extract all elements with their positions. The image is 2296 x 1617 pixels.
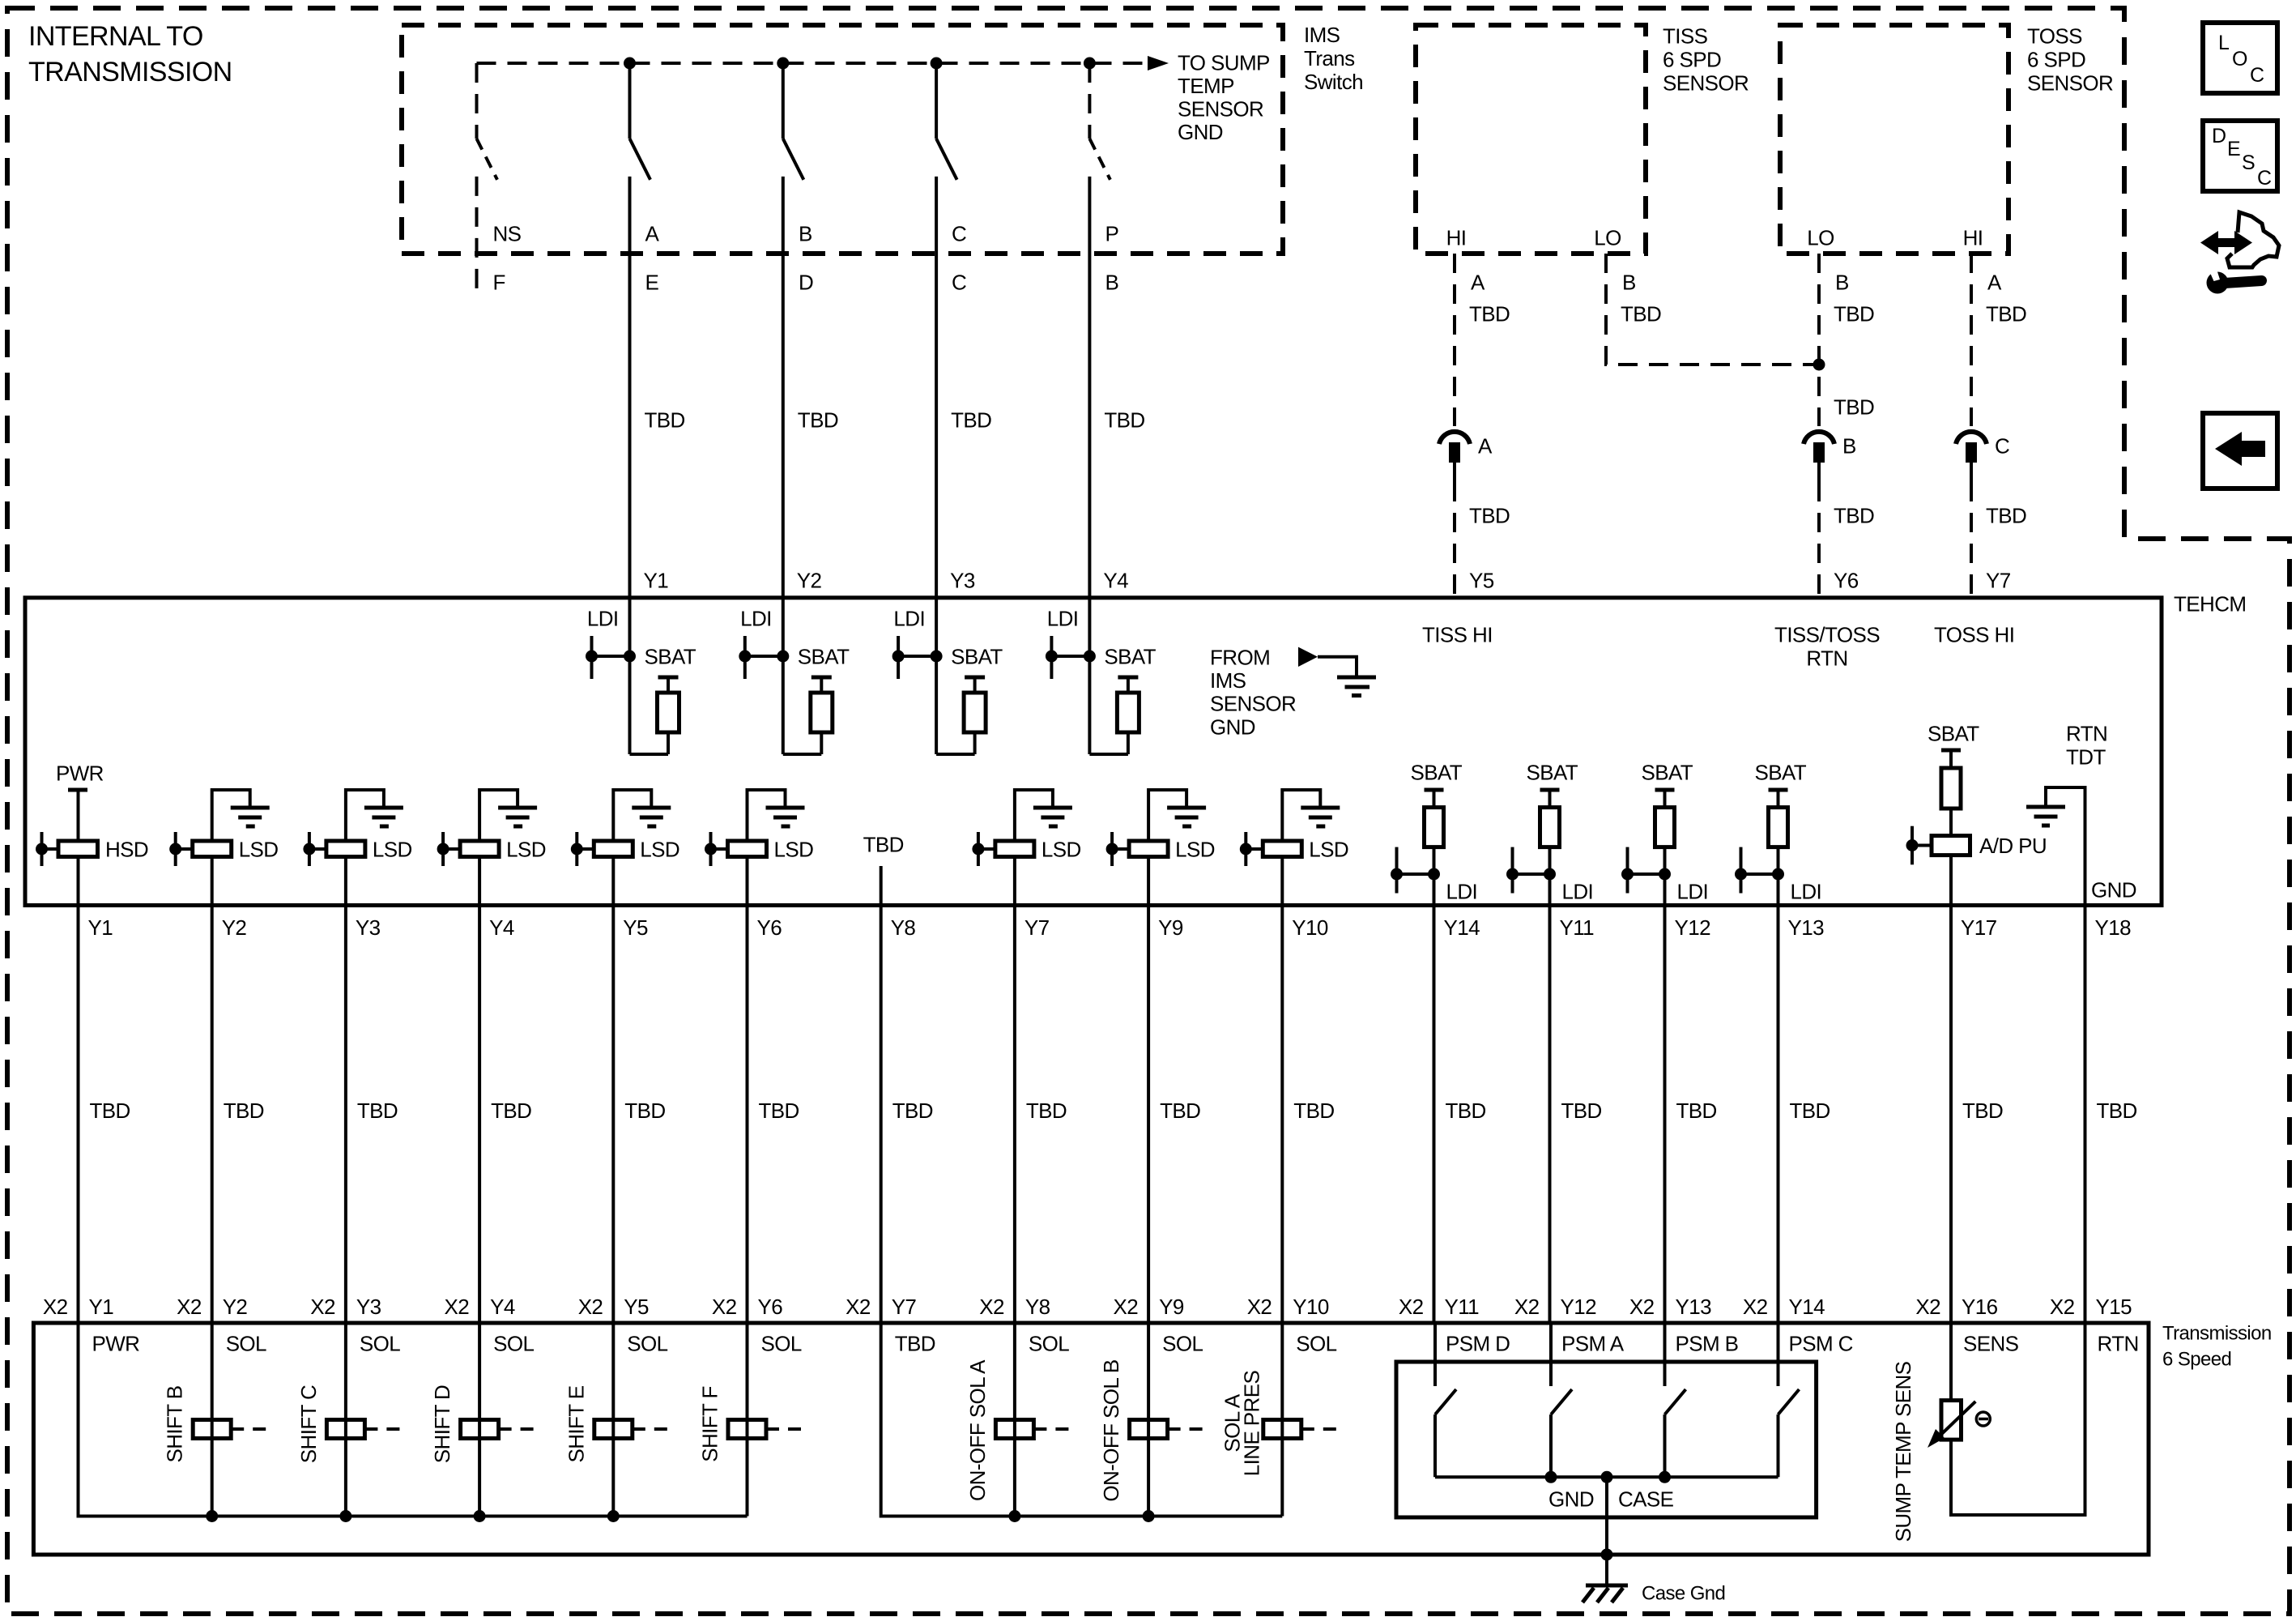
dashed hydraulic stub [231,1427,267,1431]
wire input Y12 [1663,874,1667,906]
icon: DESC box [2203,121,2277,191]
svg-text:Y12: Y12 [1675,915,1711,940]
svg-text:Y5: Y5 [1469,568,1494,592]
dashed hydraulic stub [766,1427,803,1431]
wire: TISS HI to TEHCM Y5 (upper) [1453,254,1456,426]
svg-text:GND: GND [1210,715,1255,739]
svg-text:TDT: TDT [2066,745,2106,769]
svg-text:C: C [2257,167,2272,190]
wire to ground [748,790,786,841]
resistor: SBAT pull-up Y4 [1118,676,1138,680]
svg-text:Y6: Y6 [1834,568,1859,592]
svg-text:TBD: TBD [2097,1099,2137,1123]
svg-text:TBD: TBD [759,1099,799,1123]
junction [1772,868,1784,881]
theta symbol [1976,1412,1990,1426]
svg-text:Y6: Y6 [757,915,782,940]
svg-text:SOL: SOL [360,1331,400,1355]
svg-text:LSD: LSD [373,837,412,861]
wire: IMS switch to TEHCM Y2 [782,177,785,656]
svg-text:PWR: PWR [56,761,104,785]
svg-text:TBD: TBD [1621,301,1661,326]
junction input [303,843,315,855]
ground (LSD Y7) [1033,806,1072,810]
svg-text:X2: X2 [1514,1295,1540,1319]
ground (RTN TDT) [2026,805,2065,809]
input stub [1910,826,1914,865]
svg-text:LDI: LDI [740,606,772,630]
svg-text:TISS HI: TISS HI [1422,622,1493,646]
svg-text:SOL: SOL [761,1331,802,1355]
svg-text:TBD: TBD [895,1331,935,1355]
svg-text:6 Speed: 6 Speed [2162,1349,2231,1371]
switch P (IMS) [1088,63,1091,139]
junction solenoid common [1008,1510,1020,1522]
wire to ground [613,790,651,841]
wire Y16 lower to RTN [1951,1323,2085,1515]
wire harness Y17 [1949,906,1953,1324]
junction solenoid common [1143,1510,1155,1522]
svg-text:HSD: HSD [105,837,148,861]
input stub [977,832,980,866]
svg-text:Y9: Y9 [1158,915,1183,940]
svg-text:SBAT: SBAT [1411,760,1463,784]
svg-text:PSM C: PSM C [1789,1331,1853,1355]
svg-text:TISS: TISS [1663,23,1708,48]
switch blade C [936,139,957,180]
junction input [36,843,48,855]
dashed hydraulic stub [1301,1427,1338,1431]
wire LSD output Y4 [478,857,481,906]
svg-text:Y3: Y3 [950,568,975,592]
svg-text:TBD: TBD [645,407,685,432]
svg-text:SBAT: SBAT [1642,760,1693,784]
wire harness Y7 [1013,906,1016,1324]
ground (IMS sensor gnd) [1337,676,1376,680]
svg-text:Y7: Y7 [1024,915,1050,940]
wire LSD output Y7 [1013,857,1016,906]
wire: TISS LO to TISS/TOSS RTN [1606,254,1819,365]
svg-text:A: A [1471,270,1485,294]
svg-text:RTN: RTN [2098,1331,2139,1355]
driver A/D PU (Y17) [1932,836,1970,855]
svg-text:SBAT: SBAT [645,644,696,668]
junction input [571,843,583,855]
wire Y6 solenoid [746,1323,749,1517]
svg-text:Switch: Switch [1304,70,1363,94]
svg-text:Y8: Y8 [1025,1295,1050,1319]
svg-text:X2: X2 [578,1295,603,1319]
supply bar SBAT [1540,788,1560,792]
junction PSM bus [1659,1471,1671,1483]
svg-text:X2: X2 [1629,1295,1655,1319]
ground (LSD Y5) [632,806,671,810]
svg-text:TBD: TBD [1469,503,1510,527]
svg-text:Y5: Y5 [623,915,648,940]
svg-text:SUMP TEMP SENS: SUMP TEMP SENS [1891,1361,1915,1542]
TEHCM module box [25,598,2162,906]
svg-text:S: S [2242,151,2255,174]
svg-text:TBD: TBD [491,1099,531,1123]
junction on IMS bus at switch P [1084,58,1096,70]
wire harness Y13 [1777,906,1780,1324]
svg-text:INTERNAL TO: INTERNAL TO [28,21,203,52]
svg-text:GND: GND [2091,877,2136,902]
svg-text:X2: X2 [177,1295,202,1319]
resistor: SBAT pull-up Y3 [965,676,985,680]
svg-text:LDI: LDI [1677,879,1709,903]
junction SBAT [624,651,636,663]
svg-text:PSM B: PSM B [1676,1331,1739,1355]
arrow to sump temp sensor gnd [1148,56,1169,70]
wire to ground [1282,790,1320,841]
wire harness Y3 [344,906,347,1324]
svg-text:SBAT: SBAT [1104,644,1156,668]
wire: IMS pin stub F (dashed) [475,177,479,290]
svg-text:TBD: TBD [1986,301,2026,326]
node SBAT Y4 [1088,656,1091,754]
LDI stub [743,636,747,679]
junction input [1906,839,1919,851]
svg-text:B: B [799,221,812,245]
wire harness Y8 [880,906,883,1324]
ground (LSD Y3) [364,806,403,810]
svg-text:Y2: Y2 [223,1295,248,1319]
switch blade PSM D [1435,1389,1456,1414]
junction LDI [1391,868,1403,881]
wire LSD output Y5 [611,857,615,906]
svg-text:Y1: Y1 [89,1295,114,1319]
svg-text:IMS: IMS [1210,668,1246,693]
svg-text:B: B [1105,270,1119,294]
svg-text:SOL: SOL [493,1331,534,1355]
supply bar SBAT [1655,788,1675,792]
svg-text:TOSS HI: TOSS HI [1934,622,2014,646]
wire LSD output Y3 [344,857,347,906]
wire harness Y10 [1280,906,1284,1324]
ground (LSD Y10) [1301,806,1340,810]
svg-text:X2: X2 [1399,1295,1424,1319]
svg-text:TBD: TBD [1676,1099,1717,1123]
svg-text:SHIFT F: SHIFT F [698,1386,722,1462]
svg-text:Y13: Y13 [1676,1295,1712,1319]
dashed hydraulic stub [1168,1427,1204,1431]
svg-text:TBD: TBD [1446,1099,1486,1123]
svg-text:SOL: SOL [627,1331,667,1355]
svg-text:SBAT: SBAT [1755,760,1807,784]
wire Y9 solenoid [1147,1323,1150,1517]
svg-text:X2: X2 [444,1295,469,1319]
wire: IMS switch to TEHCM Y4 [1088,177,1091,656]
TOSS 6 SPD SENSOR box [1780,25,2008,254]
wire Y3 solenoid [344,1323,347,1517]
wire to ground [479,790,518,841]
dashed hydraulic stub [633,1427,669,1431]
svg-text:TBD: TBD [1160,1099,1200,1123]
svg-text:ON-OFF SOL A: ON-OFF SOL A [965,1359,990,1501]
svg-text:TBD: TBD [951,407,991,432]
junction SBAT [777,651,789,663]
svg-text:SENSOR: SENSOR [1178,97,1263,122]
svg-text:PWR: PWR [92,1331,140,1355]
junction LDI [586,651,598,663]
svg-text:Y1: Y1 [88,915,113,940]
wire PSM A upper [1549,1323,1553,1386]
junction at transmission case [1601,1549,1613,1561]
wire harness Y6 [746,906,749,1324]
wire: TOSS HI to TEHCM Y7 (lower) [1970,482,1973,598]
node SBAT Y3 [935,656,938,754]
wire LSD output Y10 [1280,857,1284,906]
resistor: SBAT pull-up Y1 [658,676,679,680]
input stub [709,832,713,866]
svg-text:A: A [1987,270,2002,294]
svg-text:SENS: SENS [1963,1331,2019,1355]
input stub [1110,832,1114,866]
node SBAT Y1 [628,656,632,754]
svg-text:P: P [1105,221,1119,245]
wire Y10 solenoid [1280,1323,1284,1517]
switch NS (IMS) [475,63,479,139]
svg-text:Y7: Y7 [1986,568,2011,592]
svg-text:LSD: LSD [1042,837,1081,861]
svg-text:C: C [1995,433,2009,458]
svg-text:LSD: LSD [1309,837,1348,861]
junction SBAT [1084,651,1096,663]
svg-text:Y5: Y5 [624,1295,649,1319]
Transmission 6 Speed box [33,1323,2149,1555]
input stub [575,832,578,866]
svg-text:X2: X2 [979,1295,1004,1319]
svg-text:SENSOR: SENSOR [1663,70,1749,95]
svg-text:SOL: SOL [226,1331,266,1355]
svg-text:SBAT: SBAT [951,644,1003,668]
svg-text:TISS/TOSS: TISS/TOSS [1774,622,1880,646]
svg-text:B: B [1842,433,1856,458]
svg-text:SHIFT E: SHIFT E [564,1385,588,1462]
svg-text:Y6: Y6 [758,1295,783,1319]
wire Y16 upper [1949,1323,1953,1401]
wire harness Y4 [478,906,481,1324]
svg-text:LDI: LDI [893,606,925,630]
thermistor arrow [1935,1402,1975,1440]
svg-text:GND: GND [1178,120,1223,144]
chassis ground: Case Gnd [1586,1584,1628,1588]
svg-text:TO SUMP: TO SUMP [1178,50,1270,75]
svg-text:E: E [645,270,659,294]
node SBAT Y2 [782,656,785,754]
junction on IMS bus at switch A [624,58,636,70]
svg-text:Y8: Y8 [891,915,916,940]
svg-text:TBD: TBD [1834,301,1874,326]
wire PSM A lower [1549,1414,1553,1477]
wire PWR feed (Y1) [79,1323,748,1517]
svg-text:TBD: TBD [1561,1099,1602,1123]
svg-text:A: A [645,221,660,245]
junction on IMS bus at switch B [777,58,789,70]
svg-text:Y11: Y11 [1445,1295,1480,1319]
svg-text:TBD: TBD [863,832,904,856]
svg-text:LDI: LDI [1446,879,1478,903]
LDI stub [1626,847,1629,894]
svg-text:SOL: SOL [1029,1331,1069,1355]
svg-text:Y1: Y1 [644,568,669,592]
inline connector A [1439,432,1470,444]
svg-text:F: F [493,270,505,294]
junction [1544,868,1556,881]
svg-text:FROM: FROM [1210,645,1270,669]
switch blade P [1089,139,1110,180]
svg-text:SENSOR: SENSOR [1210,692,1296,716]
svg-text:Y11: Y11 [1560,915,1595,940]
junction PSM bus / case [1601,1471,1613,1483]
wire LSD output Y6 [746,857,749,906]
svg-text:NS: NS [493,221,522,245]
junction input [1240,843,1252,855]
svg-text:LINE PRES: LINE PRES [1239,1371,1263,1477]
svg-text:O: O [2232,48,2247,70]
svg-text:LSD: LSD [239,837,279,861]
svg-text:SOL: SOL [1296,1331,1336,1355]
junction solenoid common [607,1510,620,1522]
junction input [437,843,449,855]
svg-text:A: A [1478,433,1493,458]
switch blade B [783,139,804,180]
svg-text:Y2: Y2 [797,568,822,592]
wire LSD output Y9 [1147,857,1150,906]
input stub [441,832,445,866]
ground (LSD Y9) [1167,806,1206,810]
svg-text:LDI: LDI [1791,879,1822,903]
switch blade PSM A [1551,1389,1572,1414]
svg-text:TBD: TBD [892,1099,933,1123]
wire LSD output Y2 [211,857,214,906]
svg-text:Case Gnd: Case Gnd [1642,1583,1725,1605]
junction LDI [1506,868,1519,881]
svg-text:TBD: TBD [798,407,838,432]
wire Y18 to internal ground [2046,787,2085,906]
svg-text:TBD: TBD [90,1099,130,1123]
svg-text:LSD: LSD [640,837,679,861]
dashed hydraulic stub [364,1427,401,1431]
svg-text:Y15: Y15 [2096,1295,2132,1319]
input stub [308,832,311,866]
svg-text:Y9: Y9 [1159,1295,1184,1319]
svg-text:LSD: LSD [506,837,546,861]
svg-text:X2: X2 [1247,1295,1272,1319]
svg-text:SBAT: SBAT [1928,721,1979,745]
wire harness Y14 [1433,906,1436,1324]
wire Y2 solenoid [211,1323,214,1517]
wire harness Y5 [611,906,615,1324]
svg-text:Y2: Y2 [222,915,247,940]
svg-text:TBD: TBD [1834,395,1874,419]
junction solenoid common [474,1510,486,1522]
svg-text:PSM A: PSM A [1561,1331,1625,1355]
wire to ground [346,790,384,841]
svg-text:D: D [799,270,813,294]
wire Y17 [1949,855,1953,906]
svg-text:SHIFT D: SHIFT D [430,1385,454,1463]
svg-text:Y7: Y7 [892,1295,917,1319]
junction LDI [1046,651,1058,663]
svg-text:RTN: RTN [2066,721,2107,745]
ground (LSD Y6) [766,806,805,810]
svg-text:A/D PU: A/D PU [1979,834,2047,858]
svg-text:SHIFT B: SHIFT B [163,1385,187,1462]
wire harness Y11 [1548,906,1552,1324]
icon: LOC box [2203,23,2277,93]
junction solenoid common [339,1510,351,1522]
wire: IMS switch to TEHCM Y3 [935,177,938,656]
junction LDI [1621,868,1634,881]
svg-text:Y17: Y17 [1961,915,1997,940]
wire case ground [1605,1477,1608,1585]
svg-text:SENSOR: SENSOR [2027,70,2113,95]
dashed hydraulic stub [1033,1427,1070,1431]
junction input [972,843,984,855]
svg-text:LDI: LDI [587,606,619,630]
svg-text:RTN: RTN [1806,646,1847,670]
LDI stub [1511,847,1514,894]
PSM pressure switch box [1396,1362,1817,1517]
wire PSM C upper [1777,1323,1780,1386]
wire: TISS HI to TEHCM Y5 (lower) [1453,482,1456,598]
svg-text:TBD: TBD [1986,503,2026,527]
svg-text:TBD: TBD [1293,1099,1334,1123]
inline connector C [1956,432,1987,444]
switch C (IMS) [935,63,938,139]
svg-text:6 SPD: 6 SPD [2027,47,2085,71]
svg-text:ON-OFF SOL B: ON-OFF SOL B [1099,1359,1123,1501]
resistor: SBAT pull-up Y2 [811,676,832,680]
svg-text:TBD: TBD [1834,503,1874,527]
svg-text:CASE: CASE [1618,1487,1674,1511]
wire harness Y18 [2084,906,2087,1324]
wire input Y13 [1777,874,1780,906]
wire: IMS switch to TEHCM Y1 [628,177,632,656]
switch blade A [630,139,651,180]
svg-text:C: C [952,221,966,245]
svg-text:B: B [1835,270,1849,294]
svg-text:PSM D: PSM D [1446,1331,1510,1355]
svg-text:LDI: LDI [1562,879,1594,903]
junction [1428,868,1440,881]
wire HSD output [77,857,80,906]
LDI stub [1395,847,1399,894]
wire Y8 stub [880,866,883,906]
svg-text:Y10: Y10 [1293,1295,1329,1319]
junction on IMS bus at switch C [931,58,943,70]
svg-text:Y4: Y4 [489,915,514,940]
svg-text:IMS: IMS [1304,23,1340,47]
wire PSM D lower [1433,1414,1437,1477]
wire: TOSS LO to TEHCM Y6 (upper) [1817,254,1821,426]
input stub [174,832,177,866]
arrow from IMS sensor gnd [1298,647,1318,667]
svg-text:SBAT: SBAT [798,644,850,668]
svg-text:Y10: Y10 [1292,915,1328,940]
TISS 6 SPD SENSOR box [1416,25,1646,254]
input stub [1244,832,1247,866]
svg-text:HI: HI [1963,225,1983,250]
switch blade NS [477,139,498,180]
wire: IMS sensor ground bus (dashed) [477,62,1148,65]
svg-text:Y3: Y3 [356,1295,381,1319]
supply bar SBAT [1769,788,1788,792]
svg-text:TBD: TBD [624,1099,665,1123]
svg-text:LSD: LSD [774,837,814,861]
